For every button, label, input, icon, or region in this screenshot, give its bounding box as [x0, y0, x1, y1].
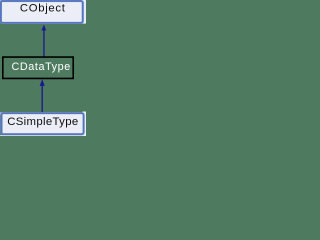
- inheritance arrow CDataType to CObject : arrowhead: [41, 25, 46, 31]
- inheritance arrow CDataType to CObject : line: [43, 30, 44, 57]
- background: [0, 0, 86, 136]
- node CSimpleType box : pale bottom margin fringe: [0, 134, 86, 137]
- svg-text:CSimpleType: CSimpleType: [7, 116, 78, 128]
- svg-text:CObject: CObject: [20, 3, 66, 15]
- node CSimpleType box : pale right margin fringe: [83, 112, 87, 137]
- inheritance arrow CSimpleType to CDataType : arrowhead: [40, 79, 45, 86]
- svg-text:CDataType: CDataType: [12, 61, 71, 73]
- node CSimpleType box: [2, 113, 84, 134]
- node CObject box : pale right margin fringe: [82, 0, 87, 24]
- node CObject box: [1, 1, 83, 23]
- inheritance arrow CSimpleType to CDataType : line: [42, 86, 43, 113]
- node CDataType box (current class): [3, 57, 73, 78]
